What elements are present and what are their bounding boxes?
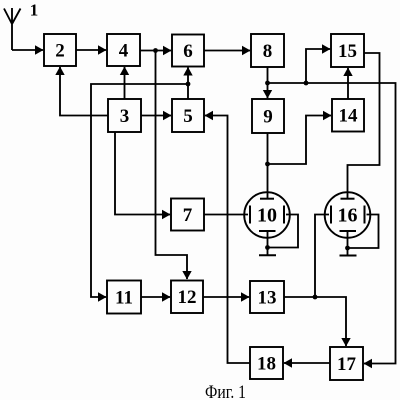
wire block 3 top to block 4 bottom [124, 67, 126, 99]
tube 16 cathode junction dot [345, 246, 350, 251]
block 2 [44, 34, 76, 66]
wire block 9 bottom to tube 10 plate [267, 133, 269, 199]
tube 10 chassis bar [259, 254, 276, 256]
wire block 4 to block 6 [140, 50, 171, 52]
block 15 [331, 34, 364, 67]
svg-text:13: 13 [258, 287, 277, 308]
svg-text:18: 18 [257, 353, 276, 374]
junction dot on wire 8-9 [265, 81, 270, 86]
svg-text:1: 1 [30, 1, 39, 20]
tube 16 right grid bar [364, 206, 366, 224]
svg-text:11: 11 [115, 287, 133, 308]
tube 16 right grid lead to cathode [348, 215, 379, 249]
block 7 [171, 199, 204, 231]
junction dot on wire 9 to tube 10 [265, 162, 270, 167]
tube 10 cathode bar [259, 230, 276, 232]
svg-text:Фиг. 1: Фиг. 1 [205, 382, 246, 400]
svg-text:8: 8 [263, 41, 273, 62]
block 6 [172, 35, 204, 67]
tube 10 right grid lead to cathode [268, 215, 299, 248]
wire branch from junction to block 14 left [268, 116, 332, 165]
tube 16 plate bar [341, 198, 355, 200]
tube 10 cathode stem [267, 231, 269, 255]
tube 16 chassis bar [340, 255, 357, 257]
svg-text:10: 10 [257, 205, 277, 227]
wire antenna to block 2 [12, 49, 43, 51]
wire block 12 to block 13 [203, 296, 249, 298]
antenna [4, 8, 21, 50]
svg-text:14: 14 [339, 105, 359, 126]
wire block 6 to block 8 [204, 50, 250, 52]
junction dot on wire 5-6 [186, 82, 191, 87]
junction dot on wire 4-6 [153, 48, 158, 53]
block 8 [251, 34, 284, 67]
wire junction on 4-6 down to block 12 top [156, 51, 188, 280]
wire block 5 top to block 6 bottom [187, 68, 189, 100]
tube 16 left grid bar [330, 206, 332, 224]
tube 10 right grid bar [283, 206, 285, 224]
junction dot on wire 13-17 [313, 295, 318, 300]
wire branch from 5-6 junction to block 11 [91, 84, 188, 297]
block 4 [107, 34, 140, 66]
wire block 2 to block 4 [76, 49, 106, 51]
svg-text:12: 12 [178, 287, 197, 308]
svg-text:4: 4 [119, 40, 129, 61]
svg-text:2: 2 [55, 40, 65, 61]
wire block 14 top to block 15 bottom [347, 68, 349, 99]
block 5 [172, 99, 204, 132]
wire from 8-9 junction right and down to block 17 right [268, 83, 396, 364]
wire block 17 to block 18 [284, 362, 330, 364]
svg-text:17: 17 [337, 354, 357, 375]
wire block 15 right to tube 16 plate [348, 53, 380, 199]
svg-text:16: 16 [338, 205, 358, 227]
svg-text:6: 6 [183, 41, 193, 62]
block 9 [252, 99, 284, 133]
block 3 [108, 99, 141, 132]
block 17 [330, 347, 363, 380]
wire block 18 left up to block 5 right [205, 116, 250, 364]
tube 10 plate bar [260, 198, 274, 200]
wire block 7 to tube 10 left grid [204, 214, 248, 216]
wire junction up to tube 16 left grid [315, 215, 329, 298]
block 18 [250, 347, 283, 379]
svg-text:9: 9 [263, 106, 273, 127]
wire block 11 to block 12 [141, 296, 170, 298]
wire branch up to block 15 left [306, 49, 330, 83]
tube 10 left grid bar [249, 206, 251, 224]
tube 16 cathode bar [340, 230, 357, 232]
tube 16 cathode stem [347, 231, 349, 256]
svg-text:5: 5 [183, 106, 193, 127]
block 14 [332, 99, 364, 132]
block 13 [250, 281, 284, 313]
tube 10 cathode junction dot [265, 245, 270, 250]
tube 10 envelope [244, 192, 290, 238]
svg-text:15: 15 [338, 41, 357, 62]
wire block 3 to block 5 [141, 115, 171, 117]
block 11 [107, 281, 141, 314]
wire block 8 bottom to block 9 top [267, 67, 269, 98]
tube 16 envelope [325, 192, 371, 238]
junction dot at 306,83 [304, 81, 309, 86]
svg-text:7: 7 [183, 205, 193, 226]
wire block 13 to block 17 top [284, 297, 346, 346]
block 12 [171, 281, 203, 314]
wire block 3 left up to block 2 bottom [60, 67, 108, 116]
wire block 3 bottom to block 7 [115, 132, 170, 215]
svg-text:3: 3 [120, 106, 130, 127]
